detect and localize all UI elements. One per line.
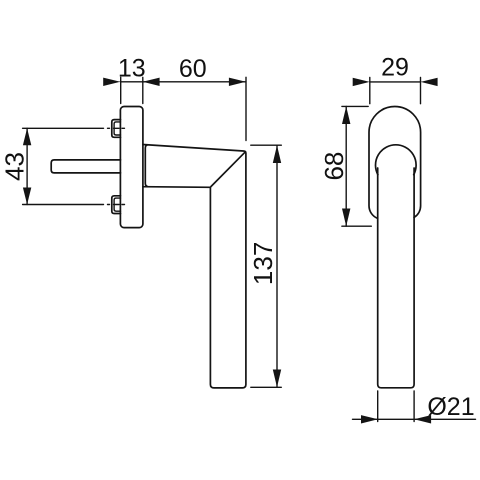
- arrow 29 right: [421, 78, 438, 86]
- ext 29 right: [420, 77, 422, 103]
- screw bottom (outer head): [112, 196, 121, 214]
- screw top (outer head): [112, 120, 121, 138]
- svg-text:13: 13: [118, 55, 146, 83]
- arrow 43 top: [23, 128, 31, 145]
- dim line d21: [353, 418, 476, 420]
- dim line 137: [276, 145, 278, 387]
- neck base edge: [145, 145, 147, 187]
- ext 43 bottom: [23, 204, 104, 206]
- centerline screw top: [108, 127, 125, 129]
- ext 43 top: [23, 127, 104, 129]
- svg-text:Ø21: Ø21: [427, 393, 474, 421]
- dim line 29: [370, 81, 421, 83]
- dim line 43: [26, 128, 28, 204]
- ext 13/60: [142, 77, 144, 103]
- ext 68 bottom: [342, 225, 371, 227]
- oval rosette (front view): [369, 107, 421, 219]
- arrow 43 bottom: [23, 188, 31, 205]
- svg-text:137: 137: [248, 242, 278, 285]
- handle collar circle (front view): [376, 145, 417, 175]
- ext 13 left: [120, 77, 122, 103]
- arrow 137 bottom: [273, 370, 281, 388]
- arrow 137 top: [273, 145, 281, 163]
- arrow d21 right: [414, 415, 431, 423]
- svg-text:60: 60: [179, 55, 207, 83]
- screw top (inner face): [114, 122, 120, 135]
- rosette plate (side view): [120, 107, 142, 228]
- arrow 13/60 shared: [143, 78, 160, 86]
- svg-text:29: 29: [381, 54, 409, 82]
- ext 60 right: [245, 77, 247, 140]
- ext 29 left: [369, 77, 371, 103]
- arrow 60 right: [229, 78, 246, 86]
- svg-text:68: 68: [319, 152, 349, 181]
- grip (front view): [378, 168, 414, 388]
- dim line 13: [120, 81, 143, 83]
- arrow 29 left: [353, 78, 370, 86]
- arrow 68 top: [342, 106, 350, 124]
- ext d21 left: [377, 391, 379, 422]
- ext 137 top: [251, 144, 281, 146]
- ext 137 bottom: [251, 386, 281, 388]
- handle neck + grip outline (side view): [143, 145, 246, 388]
- arrow 68 bottom: [342, 209, 350, 227]
- dim line 60: [143, 81, 246, 83]
- arrow d21 left: [361, 415, 378, 423]
- svg-text:43: 43: [0, 152, 30, 181]
- dim line 68: [345, 106, 347, 226]
- ext 68 top: [342, 105, 368, 107]
- arrow 13 left: [103, 78, 120, 86]
- ext d21 right: [413, 391, 415, 422]
- screw bottom (inner face): [114, 198, 120, 211]
- centerline screw bottom: [108, 204, 125, 206]
- spindle: [51, 160, 120, 173]
- neck bend crease: [211, 152, 246, 187]
